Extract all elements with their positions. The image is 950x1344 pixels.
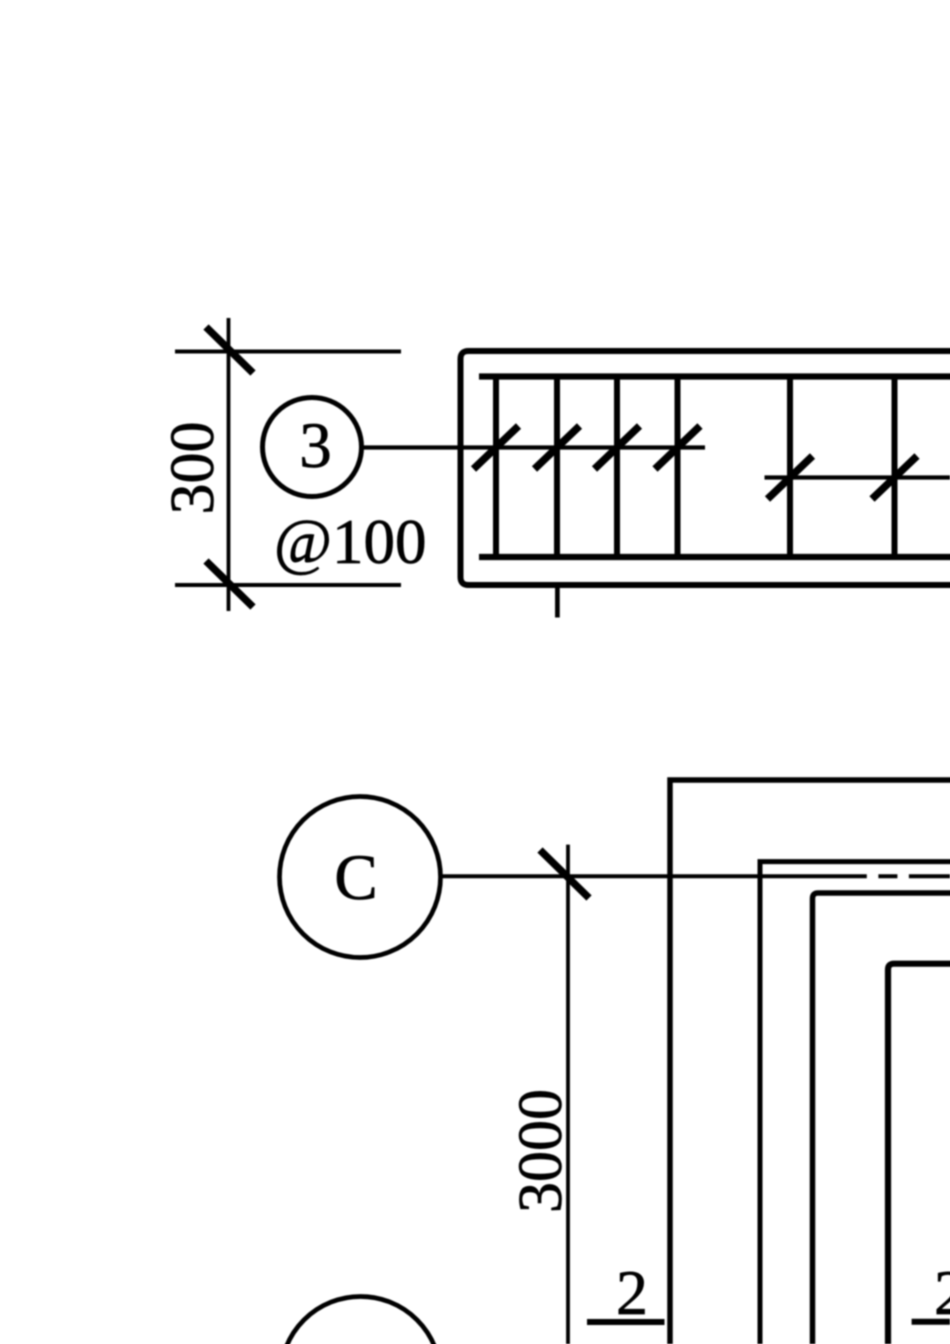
wall line 2 bbox=[760, 862, 950, 1344]
stirrup 6 bbox=[892, 377, 898, 558]
wall line 3 bbox=[813, 893, 950, 1344]
svg-text:3: 3 bbox=[299, 410, 332, 482]
leader line 1 bbox=[362, 445, 706, 449]
axis bubble bottom (partial) bbox=[281, 1297, 441, 1344]
callout bubble 3 bbox=[263, 398, 362, 497]
leader line 2 bbox=[765, 475, 950, 479]
slash mark stirrup 1 bbox=[474, 426, 519, 469]
slash mark stirrup 4 bbox=[655, 426, 700, 469]
beam outline bbox=[461, 351, 950, 585]
dimension extension line bottom bbox=[175, 583, 401, 587]
section label 2 right underline bbox=[912, 1319, 950, 1325]
svg-text:300: 300 bbox=[159, 422, 227, 515]
top rebar bbox=[479, 373, 950, 379]
dimension extension line top bbox=[175, 350, 401, 354]
bottom rebar bbox=[479, 554, 950, 560]
slash mark stirrup 6 bbox=[872, 456, 917, 499]
svg-text:3000: 3000 bbox=[507, 1089, 575, 1213]
slash mark stirrup 3 bbox=[595, 426, 640, 469]
svg-text:@100: @100 bbox=[274, 507, 427, 577]
axis line C bbox=[441, 874, 950, 878]
stirrup 2 bbox=[554, 377, 560, 558]
svg-text:2: 2 bbox=[616, 1257, 648, 1328]
axis bubble C bbox=[280, 797, 441, 958]
stirrup 5 bbox=[787, 377, 793, 558]
dimension line vertical 3000 bbox=[566, 845, 570, 1344]
wall line outer bbox=[670, 780, 950, 1344]
svg-text:C: C bbox=[334, 842, 377, 914]
dimension tick bottom bbox=[206, 561, 253, 607]
slash mark stirrup 5 bbox=[768, 456, 813, 499]
stirrup 3 bbox=[614, 377, 620, 558]
section tick below beam bbox=[555, 585, 560, 618]
dimension tick at C bbox=[540, 850, 589, 898]
slash mark stirrup 2 bbox=[535, 426, 580, 469]
section label 2 left underline bbox=[587, 1319, 665, 1325]
dimension tick top bbox=[206, 327, 253, 373]
stirrup 1 bbox=[493, 377, 499, 558]
wall line 4 bbox=[888, 964, 950, 1344]
dimension line vertical 300 bbox=[227, 318, 231, 611]
stirrup 4 bbox=[675, 377, 681, 558]
svg-text:2: 2 bbox=[934, 1257, 950, 1328]
